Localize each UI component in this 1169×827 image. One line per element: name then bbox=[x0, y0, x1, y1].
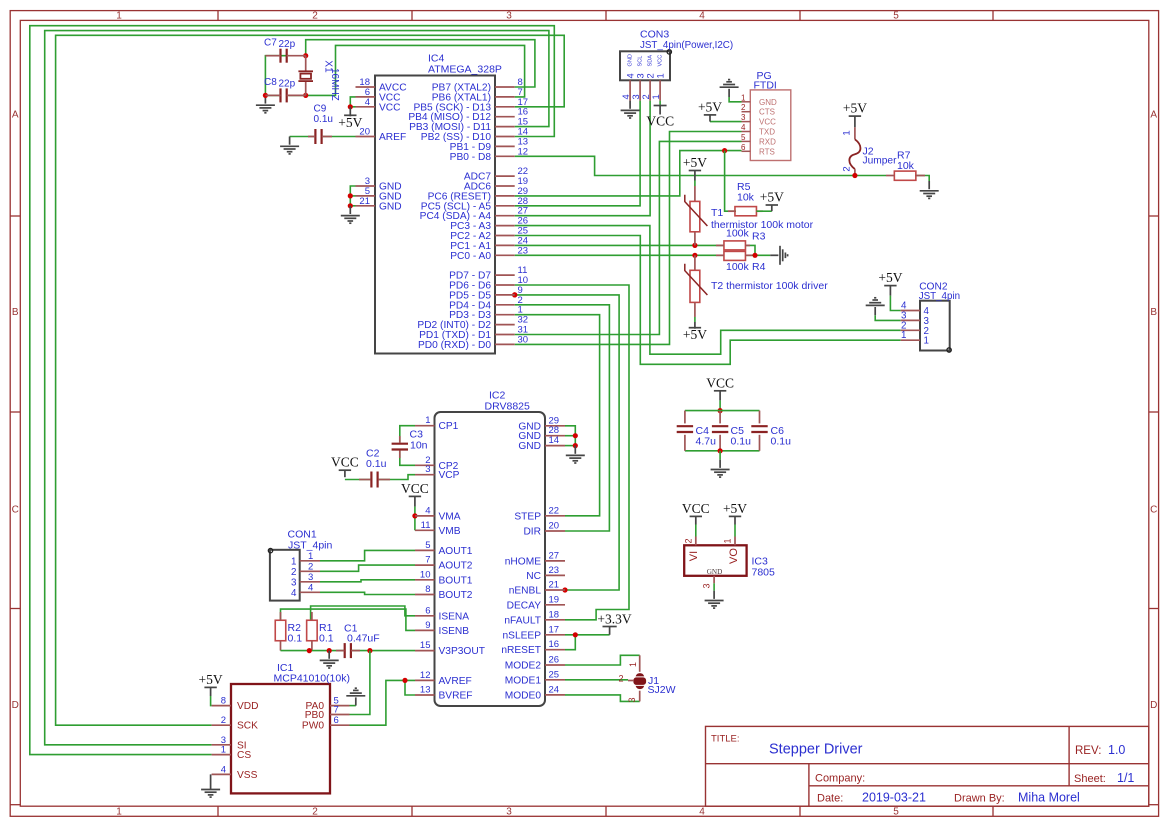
svg-text:B: B bbox=[1150, 307, 1157, 318]
svg-text:CTS: CTS bbox=[759, 108, 775, 117]
svg-text:2: 2 bbox=[684, 538, 694, 543]
svg-text:4: 4 bbox=[291, 588, 297, 599]
svg-text:AOUT2: AOUT2 bbox=[439, 561, 473, 572]
svg-text:0.1: 0.1 bbox=[288, 633, 303, 645]
svg-text:MODE0: MODE0 bbox=[505, 690, 542, 701]
svg-text:+5V: +5V bbox=[878, 270, 902, 285]
svg-text:GND: GND bbox=[707, 568, 723, 576]
svg-text:1: 1 bbox=[628, 662, 638, 667]
svg-text:19: 19 bbox=[549, 594, 560, 605]
svg-text:VCC: VCC bbox=[658, 55, 664, 67]
svg-text:1.0: 1.0 bbox=[1108, 743, 1125, 757]
svg-text:7805: 7805 bbox=[752, 567, 776, 579]
svg-text:2: 2 bbox=[741, 103, 746, 112]
svg-text:1: 1 bbox=[221, 745, 226, 756]
svg-text:3: 3 bbox=[506, 807, 512, 818]
svg-text:RTS: RTS bbox=[759, 147, 775, 156]
svg-text:7: 7 bbox=[425, 555, 430, 566]
svg-text:nSLEEP: nSLEEP bbox=[502, 630, 541, 641]
svg-text:4: 4 bbox=[626, 73, 636, 78]
svg-text:VCC: VCC bbox=[759, 118, 776, 127]
svg-text:1: 1 bbox=[924, 336, 929, 347]
svg-text:B: B bbox=[12, 307, 19, 318]
svg-text:14: 14 bbox=[549, 435, 560, 446]
svg-text:GND: GND bbox=[759, 98, 777, 107]
svg-text:VCC: VCC bbox=[379, 102, 401, 113]
svg-text:3: 3 bbox=[627, 697, 637, 702]
svg-text:2: 2 bbox=[312, 807, 318, 818]
svg-text:1: 1 bbox=[656, 73, 666, 78]
svg-text:0.1u: 0.1u bbox=[314, 114, 333, 125]
svg-text:2: 2 bbox=[291, 567, 296, 578]
svg-text:15: 15 bbox=[420, 640, 431, 651]
svg-text:BOUT1: BOUT1 bbox=[439, 575, 473, 586]
svg-text:1: 1 bbox=[842, 130, 853, 135]
svg-text:5: 5 bbox=[893, 10, 899, 21]
svg-text:21: 21 bbox=[549, 580, 560, 591]
svg-text:Company:: Company: bbox=[815, 773, 865, 785]
svg-text:17: 17 bbox=[549, 624, 560, 635]
svg-text:VMA: VMA bbox=[439, 511, 461, 522]
svg-text:1: 1 bbox=[901, 330, 906, 341]
svg-text:8: 8 bbox=[425, 584, 430, 595]
svg-text:8: 8 bbox=[221, 696, 226, 707]
svg-text:+5V: +5V bbox=[723, 501, 747, 516]
svg-text:1: 1 bbox=[291, 556, 296, 567]
svg-text:AOUT1: AOUT1 bbox=[439, 546, 473, 557]
svg-text:4: 4 bbox=[308, 582, 313, 593]
svg-text:1: 1 bbox=[651, 94, 661, 99]
svg-text:BVREF: BVREF bbox=[439, 691, 473, 702]
svg-text:thermistor 100k motor: thermistor 100k motor bbox=[711, 219, 814, 231]
svg-text:+5V: +5V bbox=[843, 101, 867, 116]
svg-text:Jumper: Jumper bbox=[863, 156, 898, 167]
svg-text:3: 3 bbox=[425, 464, 430, 475]
svg-text:4: 4 bbox=[699, 807, 705, 818]
svg-text:D: D bbox=[1150, 700, 1157, 711]
svg-text:VCC: VCC bbox=[331, 455, 359, 470]
svg-text:4: 4 bbox=[741, 123, 746, 132]
svg-text:nENBL: nENBL bbox=[509, 586, 542, 597]
svg-text:C8: C8 bbox=[264, 77, 277, 88]
svg-text:GND: GND bbox=[628, 54, 634, 66]
svg-text:2: 2 bbox=[308, 561, 313, 572]
svg-text:GND: GND bbox=[518, 441, 541, 452]
svg-text:Drawn By:: Drawn By: bbox=[954, 793, 1005, 805]
svg-text:Sheet:: Sheet: bbox=[1074, 773, 1106, 785]
svg-text:VCC: VCC bbox=[682, 501, 710, 516]
svg-text:1: 1 bbox=[723, 538, 733, 543]
svg-text:NC: NC bbox=[526, 571, 541, 582]
svg-text:VI: VI bbox=[688, 551, 700, 561]
svg-text:2: 2 bbox=[646, 73, 656, 78]
svg-text:MODE1: MODE1 bbox=[505, 675, 542, 686]
svg-text:3: 3 bbox=[291, 577, 297, 588]
svg-text:0.1u: 0.1u bbox=[771, 436, 792, 448]
svg-text:STEP: STEP bbox=[514, 511, 541, 522]
svg-text:VMB: VMB bbox=[439, 526, 461, 537]
svg-text:0.1: 0.1 bbox=[319, 633, 334, 645]
svg-text:D: D bbox=[12, 700, 19, 711]
svg-text:SDA: SDA bbox=[648, 55, 654, 67]
svg-text:RXD: RXD bbox=[759, 137, 776, 146]
svg-text:VSS: VSS bbox=[237, 770, 258, 781]
svg-text:DECAY: DECAY bbox=[507, 600, 542, 611]
svg-text:22p: 22p bbox=[279, 79, 296, 90]
svg-text:3: 3 bbox=[631, 94, 641, 99]
svg-text:4.7u: 4.7u bbox=[696, 436, 717, 448]
svg-text:C9: C9 bbox=[314, 104, 327, 115]
svg-text:Stepper Driver: Stepper Driver bbox=[769, 742, 863, 758]
svg-text:+5V: +5V bbox=[698, 99, 722, 114]
svg-text:DRV8825: DRV8825 bbox=[485, 401, 530, 413]
svg-text:12: 12 bbox=[518, 146, 529, 157]
svg-text:GND: GND bbox=[379, 201, 402, 212]
svg-text:JST_4pin(Power,I2C): JST_4pin(Power,I2C) bbox=[640, 40, 733, 51]
svg-text:CS: CS bbox=[237, 750, 251, 761]
svg-text:VCC: VCC bbox=[401, 481, 429, 496]
svg-text:12: 12 bbox=[420, 670, 431, 681]
svg-text:CON3: CON3 bbox=[640, 28, 669, 40]
svg-text:5: 5 bbox=[425, 540, 430, 551]
svg-text:+3.3V: +3.3V bbox=[597, 612, 631, 627]
svg-text:+5V: +5V bbox=[760, 190, 784, 205]
svg-text:18: 18 bbox=[549, 609, 560, 620]
svg-text:T2 thermistor 100k driver: T2 thermistor 100k driver bbox=[711, 280, 828, 292]
svg-text:23: 23 bbox=[549, 565, 560, 576]
svg-text:+5V: +5V bbox=[199, 672, 223, 687]
svg-text:VCC: VCC bbox=[706, 375, 734, 390]
svg-text:2: 2 bbox=[842, 166, 853, 171]
svg-text:2: 2 bbox=[221, 715, 226, 726]
svg-text:4: 4 bbox=[621, 94, 631, 99]
svg-text:25: 25 bbox=[549, 669, 560, 680]
svg-text:30: 30 bbox=[518, 334, 529, 345]
svg-text:1/1: 1/1 bbox=[1117, 771, 1134, 785]
svg-text:JST_4pin: JST_4pin bbox=[288, 539, 333, 551]
svg-text:FTDI: FTDI bbox=[754, 80, 777, 92]
svg-text:SCK: SCK bbox=[237, 721, 258, 732]
svg-text:nFAULT: nFAULT bbox=[504, 615, 541, 626]
svg-text:5: 5 bbox=[893, 807, 899, 818]
svg-text:2: 2 bbox=[618, 674, 623, 684]
svg-text:MCP41010(10k): MCP41010(10k) bbox=[274, 673, 350, 685]
svg-text:VCC: VCC bbox=[646, 114, 674, 129]
svg-text:AVREF: AVREF bbox=[439, 676, 472, 687]
svg-text:ATMEGA_328P: ATMEGA_328P bbox=[428, 64, 502, 76]
svg-text:1: 1 bbox=[425, 415, 430, 426]
svg-text:4: 4 bbox=[699, 10, 705, 21]
svg-text:REV:: REV: bbox=[1075, 745, 1101, 757]
svg-text:23: 23 bbox=[518, 245, 529, 256]
svg-text:TXD: TXD bbox=[759, 128, 775, 137]
svg-text:1: 1 bbox=[741, 93, 746, 102]
svg-text:+5V: +5V bbox=[683, 327, 707, 342]
svg-text:22p: 22p bbox=[279, 39, 296, 50]
svg-text:JST_4pin: JST_4pin bbox=[919, 291, 960, 302]
svg-text:V3P3OUT: V3P3OUT bbox=[439, 646, 485, 657]
svg-text:2: 2 bbox=[312, 10, 318, 21]
svg-text:16MHZ: 16MHZ bbox=[329, 68, 340, 101]
svg-text:PW0: PW0 bbox=[302, 721, 324, 732]
svg-text:ISENA: ISENA bbox=[439, 611, 470, 622]
svg-text:21: 21 bbox=[359, 196, 370, 207]
svg-text:6: 6 bbox=[741, 143, 746, 152]
svg-text:4: 4 bbox=[365, 97, 370, 108]
svg-text:SJ2W: SJ2W bbox=[648, 684, 676, 696]
svg-text:9: 9 bbox=[425, 620, 430, 631]
svg-text:TITLE:: TITLE: bbox=[711, 734, 740, 745]
svg-text:10k: 10k bbox=[737, 192, 755, 204]
svg-text:4: 4 bbox=[425, 505, 430, 516]
svg-text:3: 3 bbox=[741, 113, 746, 122]
svg-text:nHOME: nHOME bbox=[505, 556, 541, 567]
svg-text:VDD: VDD bbox=[237, 701, 259, 712]
svg-text:DIR: DIR bbox=[523, 527, 541, 538]
svg-text:0.1u: 0.1u bbox=[731, 436, 752, 448]
svg-text:3: 3 bbox=[636, 73, 646, 78]
svg-text:2: 2 bbox=[641, 94, 651, 99]
svg-text:10n: 10n bbox=[410, 440, 428, 452]
svg-text:A: A bbox=[12, 110, 19, 121]
svg-text:26: 26 bbox=[549, 655, 560, 666]
svg-text:C7: C7 bbox=[264, 38, 277, 49]
svg-text:PB0: PB0 bbox=[305, 710, 325, 721]
svg-text:3: 3 bbox=[702, 583, 712, 588]
svg-text:7: 7 bbox=[334, 705, 339, 716]
svg-text:16: 16 bbox=[549, 639, 560, 650]
svg-text:R4: R4 bbox=[752, 261, 766, 273]
svg-text:6: 6 bbox=[334, 715, 339, 726]
svg-text:10k: 10k bbox=[897, 160, 915, 172]
svg-text:20: 20 bbox=[359, 127, 370, 138]
svg-text:13: 13 bbox=[420, 685, 431, 696]
svg-text:0.47uF: 0.47uF bbox=[347, 633, 380, 645]
svg-text:Date:: Date: bbox=[817, 793, 843, 805]
svg-text:0.1u: 0.1u bbox=[366, 458, 387, 470]
svg-text:2019-03-21: 2019-03-21 bbox=[862, 791, 926, 805]
svg-text:3: 3 bbox=[506, 10, 512, 21]
svg-text:27: 27 bbox=[549, 550, 560, 561]
svg-text:22: 22 bbox=[549, 505, 560, 516]
svg-text:3: 3 bbox=[308, 572, 313, 583]
svg-text:5: 5 bbox=[741, 133, 746, 142]
svg-text:SCL: SCL bbox=[638, 56, 644, 67]
svg-text:11: 11 bbox=[421, 520, 431, 531]
svg-text:20: 20 bbox=[549, 521, 560, 532]
svg-text:AREF: AREF bbox=[379, 132, 406, 143]
svg-text:Miha Morel: Miha Morel bbox=[1018, 791, 1080, 805]
svg-text:BOUT2: BOUT2 bbox=[439, 590, 473, 601]
svg-text:VO: VO bbox=[728, 548, 740, 564]
svg-text:6: 6 bbox=[425, 605, 430, 616]
svg-text:C: C bbox=[1150, 505, 1157, 516]
svg-text:PC0 - A0: PC0 - A0 bbox=[450, 251, 491, 262]
svg-text:PB0 - D8: PB0 - D8 bbox=[450, 152, 492, 163]
svg-text:R3: R3 bbox=[752, 231, 766, 243]
svg-text:1: 1 bbox=[116, 10, 122, 21]
svg-text:ISENB: ISENB bbox=[439, 626, 470, 637]
svg-text:+5V: +5V bbox=[683, 155, 707, 170]
svg-text:A: A bbox=[1150, 110, 1157, 121]
svg-text:MODE2: MODE2 bbox=[505, 661, 542, 672]
svg-text:1: 1 bbox=[116, 807, 122, 818]
svg-text:1: 1 bbox=[308, 551, 313, 562]
svg-text:nRESET: nRESET bbox=[501, 645, 541, 656]
svg-text:4: 4 bbox=[221, 764, 226, 775]
svg-text:C: C bbox=[12, 505, 19, 516]
svg-text:CP1: CP1 bbox=[439, 421, 459, 432]
svg-text:10: 10 bbox=[420, 569, 431, 580]
svg-text:T1: T1 bbox=[711, 207, 723, 219]
svg-text:VCP: VCP bbox=[439, 470, 460, 481]
svg-text:PD0 (RXD) - D0: PD0 (RXD) - D0 bbox=[418, 340, 491, 351]
svg-text:100k: 100k bbox=[726, 261, 750, 273]
svg-text:24: 24 bbox=[549, 684, 560, 695]
